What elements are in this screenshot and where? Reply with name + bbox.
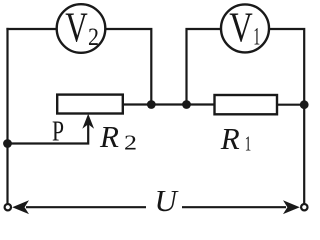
svg-text:1: 1 [245, 132, 252, 156]
svg-text:2: 2 [88, 24, 99, 51]
svg-text:R: R [99, 119, 119, 154]
svg-text:2: 2 [124, 131, 137, 155]
svg-text:1: 1 [253, 23, 260, 50]
svg-text:U: U [155, 183, 180, 218]
svg-text:R: R [220, 121, 240, 156]
svg-text:P: P [52, 117, 64, 148]
svg-text:V: V [229, 6, 253, 52]
svg-text:V: V [65, 5, 88, 51]
